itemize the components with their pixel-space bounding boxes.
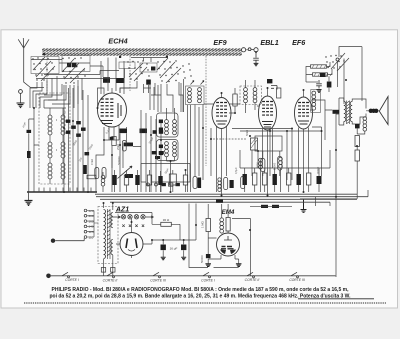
tone resistor R20 (hatched) xyxy=(311,65,327,68)
wire trimmer link xyxy=(246,48,254,50)
IF1 upper padding capacitor 2 (black) xyxy=(159,128,163,132)
wire ECH4 top leads xyxy=(101,58,124,95)
switch hub blob S2a xyxy=(119,56,121,58)
capacitor C20 (black) xyxy=(317,176,322,184)
wire bus end corner xyxy=(316,190,369,206)
wire antenna input to coil box xyxy=(29,108,39,192)
trimmer capacitor C-t1 xyxy=(242,48,246,52)
wire IF1 leads xyxy=(167,108,175,192)
resistor R27 (outline) xyxy=(124,175,128,185)
tiny labels detector xyxy=(234,130,320,174)
wire anode horizontal link 1 xyxy=(232,128,292,130)
wire top horizontal S2 link xyxy=(131,58,168,63)
tone resistor R21 (hatched) xyxy=(313,73,328,76)
AVC resistor Rb (black) xyxy=(81,128,86,131)
R20 hatch xyxy=(312,65,330,68)
tiny labels center xyxy=(90,126,170,174)
ECH4 internal grids xyxy=(101,99,114,116)
resistor R30 (black) xyxy=(158,176,162,185)
AVC network vertical wires xyxy=(64,85,88,192)
EBL1 anode bar xyxy=(262,122,273,128)
mains switch contacts 2 xyxy=(107,272,115,278)
svg-text:16 μF: 16 μF xyxy=(170,247,178,251)
svg-text:CORTE II: CORTE II xyxy=(245,278,260,282)
screen resistor R7 (outline pill vertical) xyxy=(122,141,126,152)
EM4 target shadow sectors xyxy=(220,250,236,255)
grid coupling capacitor C7 xyxy=(146,80,151,85)
resistor R15 (outline) xyxy=(287,173,291,185)
output transformer T3 secondary coil xyxy=(350,102,352,122)
wire oscillator verticals xyxy=(144,79,184,112)
mains voltage selector taps xyxy=(84,209,87,238)
adjust arrow L8 xyxy=(201,81,205,85)
filament lamp 3 xyxy=(134,215,138,219)
wire transformer mains drops xyxy=(104,203,113,276)
EF9 bias resistor pill 1 xyxy=(193,177,197,189)
heater arrow left xyxy=(112,216,121,218)
resistor R31 (outline) xyxy=(183,175,187,185)
padder capacitor block on S1b xyxy=(67,63,71,67)
mains switch contacts 3 xyxy=(153,272,161,278)
IF1 lower padding capacitor (black) xyxy=(159,145,163,149)
capacitor C26 coil xyxy=(101,175,105,186)
padding capacitor C14 (black) xyxy=(159,151,164,154)
anode load loop rectangle xyxy=(255,136,282,151)
speaker magnet (dark) xyxy=(369,109,379,113)
wire caps to ground xyxy=(163,250,184,257)
wire EBL1 pin leads xyxy=(257,88,273,140)
oscillator coil L5 xyxy=(48,163,52,179)
wave switch S2a housing xyxy=(119,62,135,69)
mains plug lower xyxy=(46,274,51,279)
mains switch contacts 1 xyxy=(62,272,70,278)
AVC capacitor Cc (black) xyxy=(76,121,81,124)
main bus line 3 xyxy=(100,198,357,200)
pickup contact 1 xyxy=(147,183,150,186)
AVC tiny value labels xyxy=(60,109,94,162)
switch hub blob S2b xyxy=(166,56,168,58)
main bus line 4 xyxy=(110,201,330,203)
coupling capacitor C15 xyxy=(267,79,272,83)
oscillator coil unit box xyxy=(186,86,205,105)
capacitor C19 circles xyxy=(279,157,283,168)
wire S2 outputs descending to tube/coils xyxy=(120,81,183,112)
resistor R17 (outline) xyxy=(307,173,311,185)
wave switch S2b contact dots (oscillator) xyxy=(157,60,185,82)
pickup capacitor Cf (black) xyxy=(176,183,180,186)
trimmer capacitor C-t2 xyxy=(248,48,251,51)
main bus line 1 xyxy=(95,193,357,195)
wire anode horizontal link 2 xyxy=(240,130,322,132)
padding capacitor C13 (black) xyxy=(152,151,157,154)
filter capacitor C31 (black) xyxy=(181,245,186,251)
svg-text:50000: 50000 xyxy=(200,255,204,263)
power transformer primary winding (upper) xyxy=(104,210,106,234)
gang link dashed drop to mixer section xyxy=(129,56,131,91)
IF2 primary coil xyxy=(244,88,248,103)
filament lamp 4 xyxy=(141,215,145,219)
anode feed resistor R22 (black) xyxy=(333,110,340,114)
wire detector verticals xyxy=(252,127,322,180)
ground under trimmer capacitor xyxy=(254,63,259,65)
electrolytic capacitor C23 (black) xyxy=(327,82,332,88)
wave switch S1a housing xyxy=(31,57,59,74)
filament lamp 1 xyxy=(121,215,125,219)
wire EF6 anode to T3 xyxy=(312,100,332,140)
wave switch S1b housing xyxy=(62,56,90,72)
ground filter cap 2 xyxy=(181,257,186,260)
bleeder resistor R23 (outline, vertical) xyxy=(355,136,359,147)
R21 hatch xyxy=(314,73,332,76)
output coupling coil L9 xyxy=(312,91,316,110)
aerial coil L1 xyxy=(48,115,52,135)
resistor R28 (black) xyxy=(135,175,139,185)
IF1 lower primary coil xyxy=(165,142,169,157)
IF1 upper padding capacitor (black) xyxy=(159,120,163,124)
selector tap labels xyxy=(89,209,94,240)
wave switch S2a wiper arms xyxy=(129,63,147,81)
wire S1 interconnect horizontals xyxy=(31,60,125,79)
adjust arrow L7 xyxy=(191,81,195,85)
mains plug upper xyxy=(51,239,55,243)
EF9 bias capacitor (black) xyxy=(230,180,234,188)
svg-text:0,5μF: 0,5μF xyxy=(234,167,238,174)
IF1 lower secondary coil xyxy=(173,142,177,157)
power transformer primary winding (lower) xyxy=(104,235,106,259)
EF9 bias resistor pill 4 xyxy=(241,177,245,189)
AZ1 filament xyxy=(128,250,135,252)
tone capacitor blob (black) xyxy=(320,73,326,77)
wire IF2 leads xyxy=(246,80,256,113)
EF6 anode bar xyxy=(298,121,309,124)
mains drop switch box 2 xyxy=(111,268,115,273)
wave switch S2b housing xyxy=(140,63,157,72)
aerial coil L3 xyxy=(48,142,52,158)
cathode bias resistor Rk (outline pill) xyxy=(95,168,99,179)
ground EM4 right xyxy=(236,264,242,267)
oscillator padding capacitor 2 (black) xyxy=(116,78,125,83)
switch hub blob S1a xyxy=(43,53,45,55)
pickup resistor Rf (outline) xyxy=(169,183,173,186)
tone switch pivot xyxy=(336,58,339,61)
wire left vertical riser xyxy=(33,145,35,192)
antenna xyxy=(18,38,44,88)
mains switch contacts 4 xyxy=(203,272,211,278)
bias resistor R6 (outline pill) xyxy=(102,168,106,179)
earth terminal xyxy=(19,90,23,94)
bleeder resistor R24 (outline, vertical) xyxy=(355,150,359,161)
wire heater row xyxy=(250,205,292,207)
detector pill resistor Rg xyxy=(261,159,265,172)
svg-text:50000: 50000 xyxy=(273,162,277,170)
tuning gang mechanical link (hatched band) lower row xyxy=(42,52,242,55)
ground B+ rail xyxy=(301,199,307,212)
resistor R14 (black) xyxy=(273,174,277,185)
svg-text:EF9: EF9 xyxy=(213,38,226,47)
wave switch S1b wiper arms xyxy=(62,59,85,83)
wave switch S2a contact dots (mixer grid) xyxy=(127,60,143,79)
wire EM4 leads xyxy=(189,204,251,276)
volume potentiometer with arrow xyxy=(118,166,133,179)
bus ticks xyxy=(39,188,91,193)
grid resistor R3 xyxy=(120,129,128,134)
wire EF6 pin leads xyxy=(299,90,313,140)
coupling capacitor C12 (black) xyxy=(159,130,163,134)
IF transformer T1 upper can xyxy=(157,113,179,137)
svg-text:EF6: EF6 xyxy=(292,38,306,47)
bus series resistor (black) xyxy=(216,200,223,203)
speaker cone xyxy=(380,97,389,125)
heater crosses row 2 xyxy=(122,225,144,227)
svg-text:5600: 5600 xyxy=(256,162,260,168)
mains switch contacts 6 xyxy=(291,272,299,278)
resistor R10 (outline, vertical) xyxy=(277,88,281,98)
tube EBL1 envelope xyxy=(259,96,277,130)
tube EF6 envelope xyxy=(295,97,313,129)
aerial coil L4 xyxy=(61,142,65,158)
svg-text:CORTE II: CORTE II xyxy=(103,279,118,283)
tone capacitor C22 xyxy=(316,80,322,89)
tone switch contact dots xyxy=(325,55,344,69)
EF6 internal grids xyxy=(298,103,309,117)
tuning gang mechanical link (hatched band) upper row xyxy=(42,48,242,51)
decoupling capacitor C10 (black) xyxy=(110,137,114,140)
wire R8 leads xyxy=(229,88,235,113)
switch hub blob S1b xyxy=(75,65,78,67)
decoupling capacitor C24 (black) xyxy=(355,124,360,128)
tone switch wiper arm xyxy=(331,53,349,71)
AVC resistor Rd (black, vertical) xyxy=(83,165,87,174)
chassis ground bus (heavy) xyxy=(27,191,97,193)
svg-text:CORTE I: CORTE I xyxy=(201,279,215,283)
EM4 grid resistor R35 (outline, vertical) xyxy=(206,219,211,232)
EM4 grid capacitor C33 (black) xyxy=(206,254,211,258)
power transformer HT winding xyxy=(111,213,113,228)
gang link dashed drop to oscillator section xyxy=(46,56,48,91)
IF transformer T2 shield box (dashed) xyxy=(240,86,262,105)
caption emphasis underline xyxy=(298,298,374,300)
wire bundle from S1b descending xyxy=(44,78,82,108)
screen resistor R8 (vertical outline) xyxy=(233,94,237,106)
EM4 series resistor R36 (outline, vertical) xyxy=(226,218,230,232)
resistor R16 (black) xyxy=(297,174,301,185)
wire selector taps to transformer xyxy=(87,211,98,238)
detector pill resistor Rh xyxy=(278,157,282,171)
power transformer heater winding xyxy=(111,240,113,255)
wire tone network xyxy=(306,47,362,104)
ground symbol (antenna earth) xyxy=(17,103,25,108)
AVC capacitor Cd (black) xyxy=(85,152,90,155)
pickup capacitor Ce (black) xyxy=(162,183,166,186)
wire IF1 right risers xyxy=(188,105,191,192)
wire B+ rail down xyxy=(300,147,357,199)
AVC capacitor Cb (black) xyxy=(71,126,76,129)
wire AZ1 leads xyxy=(116,219,152,258)
ground EM4 left xyxy=(205,264,211,267)
mains switch contacts 5 xyxy=(247,272,255,278)
svg-text:30000: 30000 xyxy=(316,166,320,174)
bus series resistor 2 (black) xyxy=(261,205,268,208)
L9 core box xyxy=(311,90,321,113)
resistor R13 (outline) xyxy=(263,173,267,185)
wave switch S1a contact dots xyxy=(32,57,53,80)
wire center vertical bundle xyxy=(96,110,161,192)
IF transformer T1 lower can xyxy=(157,140,179,161)
svg-text:PHILIPS RADIO - Mod. BI 280/A: PHILIPS RADIO - Mod. BI 280/A e RADIOFON… xyxy=(52,287,350,293)
solder junction dots xyxy=(28,51,358,241)
capacitor C16 xyxy=(271,86,277,90)
coupling capacitor C9 xyxy=(124,143,134,147)
EF9 internal grids xyxy=(216,103,227,117)
EF9 decoupling coil xyxy=(218,178,221,192)
pickup switch box xyxy=(141,164,190,183)
svg-text:ECH4: ECH4 xyxy=(108,37,127,46)
svg-text:CORTE III: CORTE III xyxy=(150,279,166,283)
bus series resistor 3 (black) xyxy=(272,205,279,208)
wire bundle from S1a bending into coil box xyxy=(30,76,57,108)
tuning eye EM4 envelope xyxy=(217,233,240,256)
antenna series resistor (black, on riser) xyxy=(27,151,31,158)
power transformer core hatch xyxy=(107,209,110,259)
aerial coil L2 xyxy=(61,115,65,135)
wire EBL1 pin drops extended xyxy=(263,140,309,196)
EM4 cathode hook xyxy=(224,236,232,240)
cathode resistor R5 (outline) xyxy=(112,137,116,146)
main bus line 2 xyxy=(96,196,368,198)
R9 hatch xyxy=(251,139,257,148)
wire plug to selector xyxy=(55,238,84,240)
wire EF9 cathode drops xyxy=(195,105,227,196)
EM4 internal electrode bars xyxy=(221,247,234,249)
svg-text:47kΩ: 47kΩ xyxy=(90,159,94,165)
resistor R11 (black) xyxy=(243,174,247,185)
heater arrow right xyxy=(146,216,154,218)
oscillator padding capacitor (black) xyxy=(103,77,110,83)
EM4 anode coil xyxy=(220,218,224,233)
svg-text:1 MΩ: 1 MΩ xyxy=(201,221,205,228)
mains line xyxy=(51,275,336,277)
aerial/oscillator coil unit shield box (dashed) xyxy=(39,93,70,184)
trimmer capacitor C-t3 xyxy=(254,48,258,52)
output transformer T3 primary coil xyxy=(344,102,346,122)
filament lamp 2 xyxy=(128,215,132,219)
wave switch S2b wiper arms xyxy=(157,58,181,83)
ground tone network xyxy=(316,90,321,93)
ECH4 anode bar xyxy=(101,103,121,124)
wire speaker leads xyxy=(366,110,380,112)
padding capacitor C14b (black) xyxy=(155,156,160,159)
AVC dashed line xyxy=(210,138,247,140)
anode resistor R9 (outline box vertical) xyxy=(251,138,258,150)
oscillator trimmer coil (right) xyxy=(198,88,202,103)
wave switch S1b contact dots xyxy=(62,57,85,83)
ground filter cap 1 xyxy=(161,257,166,260)
svg-text:30 Ω: 30 Ω xyxy=(163,218,170,222)
svg-text:EBL1: EBL1 xyxy=(260,38,278,47)
oscillator trimmer coil with adjust arrow (left) xyxy=(188,88,192,103)
svg-text:500000: 500000 xyxy=(117,156,121,165)
wire ECH4 pin leads xyxy=(98,88,131,140)
wire detector row leads xyxy=(240,150,330,192)
volume pot body (black) xyxy=(125,174,133,178)
wire long vertical to mains switch xyxy=(336,114,339,277)
gang link dashed drop to IF section xyxy=(205,56,207,166)
rectifier tube AZ1 envelope xyxy=(120,233,143,256)
AVC resistor Ra (black) xyxy=(66,131,71,134)
field coil L10 xyxy=(363,117,367,131)
svg-text:CORTE III: CORTE III xyxy=(289,278,305,282)
wave switch S2 dots extra xyxy=(146,63,191,76)
resistor R12 (outline) xyxy=(253,173,257,185)
ground symbol (chassis, below bus) xyxy=(25,201,33,206)
oscillator grid capacitor (black) xyxy=(151,67,155,71)
resistor R26 (black) xyxy=(112,175,116,185)
IF2 secondary coil xyxy=(253,88,257,103)
AVC capacitor Ca (black) xyxy=(66,120,71,123)
mains drop switch box 1 xyxy=(101,268,105,273)
wire earth lead xyxy=(20,93,22,102)
surge resistor R33 (outline) xyxy=(161,222,172,226)
coupling capacitor C11 (black) xyxy=(153,130,157,134)
wave switch S1a wiper arms xyxy=(33,57,55,81)
output transformer T3 core (hatch) xyxy=(347,101,350,125)
power transformer shield box (dashed) xyxy=(98,207,118,264)
IF1 secondary coil xyxy=(173,120,177,135)
wire ground bus drop xyxy=(28,192,30,200)
capacitor C18 small circles xyxy=(259,158,263,169)
oscillator coil L6 xyxy=(61,163,65,179)
EF9 bias resistor pill 3 xyxy=(224,178,228,190)
wire C23 leads xyxy=(328,76,330,92)
EF9 anode bar xyxy=(216,121,227,124)
antenna series capacitor xyxy=(27,130,32,133)
EBL1 internal grids xyxy=(262,102,273,116)
AVC resistor Rc (black) xyxy=(76,134,81,137)
wire field coil leads xyxy=(357,128,365,134)
pickup contact 2 xyxy=(155,183,158,186)
padder capacitor block 2 on S1b xyxy=(72,63,76,67)
tube ECH4 envelope xyxy=(98,93,127,127)
tube EF9 envelope xyxy=(212,98,231,129)
capacitor under trimmers xyxy=(253,52,259,63)
AZ1 anode plates xyxy=(126,239,137,249)
grid resistor R4 xyxy=(140,129,148,134)
AVC resistor Re (outline, horizontal) xyxy=(87,175,96,179)
caption dotted rule xyxy=(24,302,386,304)
filter capacitor C30 (black) xyxy=(161,245,166,251)
wire HT to caps xyxy=(152,204,196,245)
wire heater winding to surge resistor xyxy=(115,213,180,241)
IF1 lower padding capacitor 2 (black) xyxy=(159,152,163,156)
capacitor C27 (outline box) xyxy=(169,174,176,185)
svg-text:CORTE I: CORTE I xyxy=(65,278,79,282)
EF9 bias resistor pill 2 (black) xyxy=(198,178,202,189)
resistor R29 (outline) xyxy=(147,175,151,185)
coil interconnect wires in box xyxy=(44,108,66,184)
IF1 primary coil xyxy=(165,120,169,135)
wire T3 connections xyxy=(339,98,366,125)
wire EF9 pin leads xyxy=(204,93,240,140)
wire AVC row leads xyxy=(103,170,186,192)
